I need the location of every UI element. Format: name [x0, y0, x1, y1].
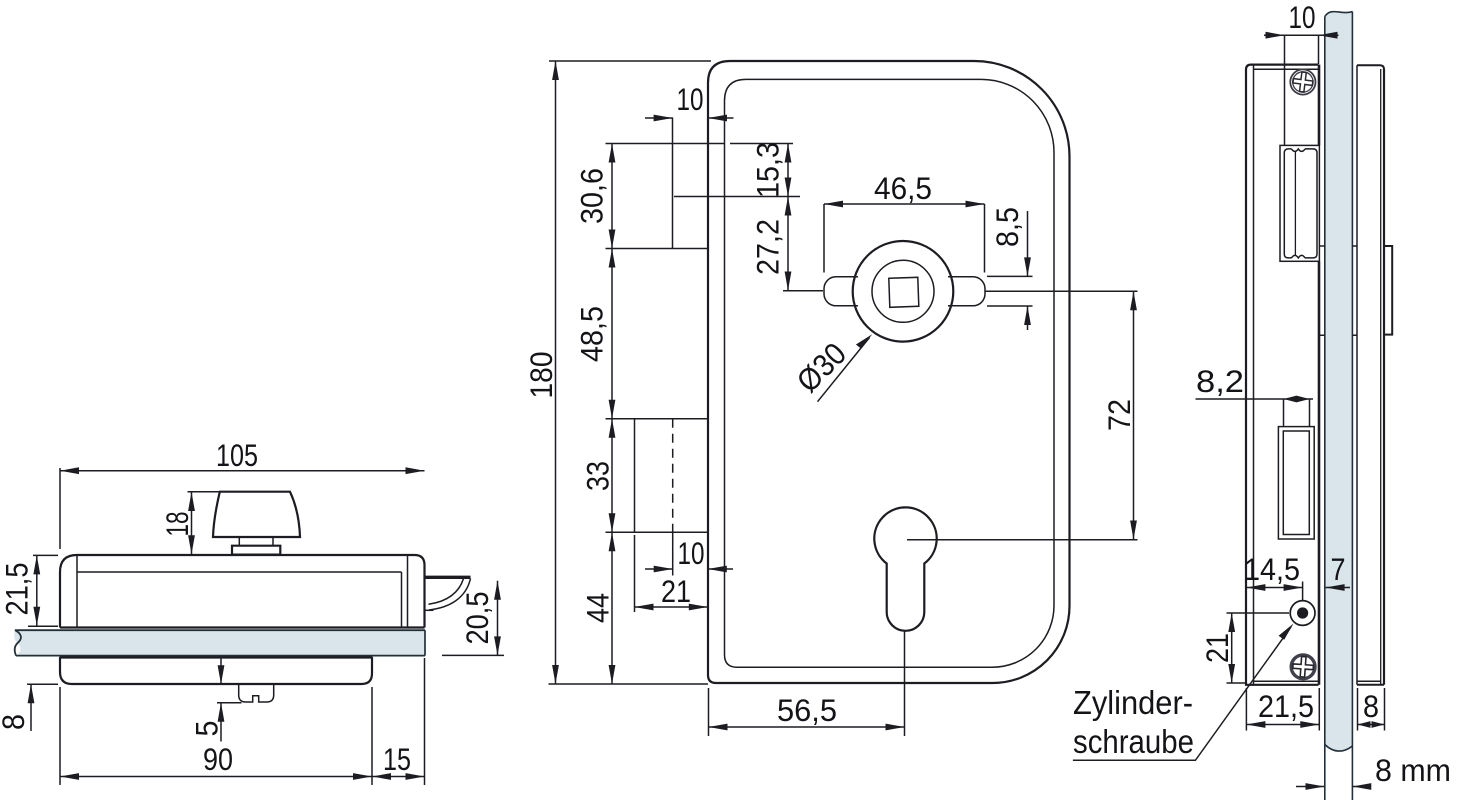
dimension 8 (lower cover depth) [0, 684, 58, 731]
svg-text:15,3: 15,3 [750, 142, 786, 198]
svg-text:10: 10 [677, 81, 704, 117]
lock right half (section) [1357, 65, 1384, 685]
dimension 15,3 [674, 142, 800, 198]
svg-text:21: 21 [1199, 633, 1235, 663]
upper left protrusion box (30,6) [606, 118, 725, 249]
svg-text:33: 33 [580, 461, 616, 491]
lock body upper (side view) [60, 555, 425, 628]
svg-text:7: 7 [1331, 551, 1346, 587]
top phillips screw [1290, 69, 1315, 94]
svg-text:schraube: schraube [1073, 723, 1194, 760]
svg-text:8 mm: 8 mm [1375, 752, 1451, 788]
svg-text:90: 90 [203, 741, 233, 777]
keyhole (euro profile) [874, 507, 936, 630]
svg-text:27,2: 27,2 [750, 219, 786, 275]
dimension 8,2 [1196, 363, 1314, 426]
square spindle hole [889, 277, 919, 307]
knob (side view) [213, 492, 300, 555]
svg-text:72: 72 [1101, 399, 1137, 431]
lock case outer contour [708, 61, 1070, 683]
right ear lug [948, 277, 985, 306]
dimension 44 [580, 532, 616, 684]
svg-text:14,5: 14,5 [1244, 551, 1300, 587]
dimension 10 (top, faceplate offset) [645, 81, 734, 121]
strike slot box (section) [1278, 427, 1314, 539]
dimension 56,5 [709, 631, 905, 737]
svg-text:21: 21 [661, 573, 691, 609]
dimension 21,5 (right view) [1246, 688, 1319, 731]
svg-text:105: 105 [216, 437, 258, 473]
svg-text:Zylinder-: Zylinder- [1073, 684, 1193, 721]
dimension 33 [580, 419, 616, 533]
svg-text:5: 5 [189, 721, 225, 737]
dimension 20,5 [442, 581, 504, 656]
label Zylinderschraube with leader [1073, 624, 1294, 761]
svg-text:48,5: 48,5 [574, 306, 610, 362]
dimension 21 (lower box width) [635, 535, 708, 612]
dimension 21 (right view) [1199, 613, 1289, 683]
follower hub inner circle [872, 260, 934, 322]
lock left half (section) [1246, 65, 1319, 685]
lock case inner contour [725, 79, 1055, 667]
svg-text:21,5: 21,5 [0, 563, 35, 616]
follower hub outer circle [853, 241, 954, 342]
svg-text:46,5: 46,5 [874, 170, 932, 206]
svg-text:30,6: 30,6 [574, 168, 610, 224]
svg-text:10: 10 [1289, 0, 1316, 35]
lock body lower cover (side view) [60, 657, 372, 684]
cylinder screw hole [1290, 601, 1315, 626]
latch housing box (section) [1280, 145, 1319, 261]
dimension 105 [60, 437, 425, 549]
dimension 48,5 [574, 249, 616, 419]
svg-text:56,5: 56,5 [777, 692, 837, 728]
dimension 46,5 [824, 170, 985, 273]
dimension 27,2 [750, 197, 824, 291]
svg-text:15: 15 [383, 741, 411, 777]
svg-text:18: 18 [159, 512, 195, 537]
dimension 72 [907, 291, 1138, 540]
dimension 10 (faceplate width, top) [1264, 0, 1339, 145]
dimension 8 (right half width) [1358, 688, 1385, 731]
dimension 15 [372, 658, 425, 785]
bottom phillips screw [1291, 655, 1315, 679]
svg-text:10: 10 [678, 535, 705, 571]
dimension 7 [1326, 551, 1350, 591]
dimension 21,5 [0, 555, 58, 626]
svg-text:21,5: 21,5 [1258, 688, 1314, 724]
dimension 8,5 [987, 207, 1033, 330]
glass pane side view [14, 630, 425, 655]
svg-text:8,5: 8,5 [989, 207, 1025, 247]
svg-text:8: 8 [0, 714, 31, 730]
dimension 5 (tab height) [189, 659, 242, 742]
svg-text:8: 8 [1363, 688, 1379, 724]
latch bolt (side view) [425, 577, 471, 610]
svg-text:20,5: 20,5 [459, 592, 495, 645]
svg-text:180: 180 [523, 352, 559, 399]
glass pane section [1325, 12, 1353, 800]
svg-text:8,2: 8,2 [1196, 363, 1244, 399]
dimension 30,6 [574, 144, 616, 249]
svg-text:44: 44 [580, 593, 616, 623]
dimension 10 (lower, dashed line offset) [645, 535, 733, 572]
dimension 14,5 [1244, 551, 1303, 601]
label Ø30 with leader [789, 334, 872, 402]
lower left protrusion box (33 x 21) [606, 419, 709, 576]
spindle boss on right half [1384, 246, 1392, 335]
dimension 90 [60, 687, 372, 785]
bottom tab with notch [239, 684, 274, 702]
left ear lug [824, 277, 858, 306]
junction ticks at glass [1320, 246, 1358, 335]
dimension 8 mm (glass thickness) [1296, 752, 1451, 790]
dimension 180 [523, 61, 711, 684]
dimension 18 [159, 492, 219, 555]
